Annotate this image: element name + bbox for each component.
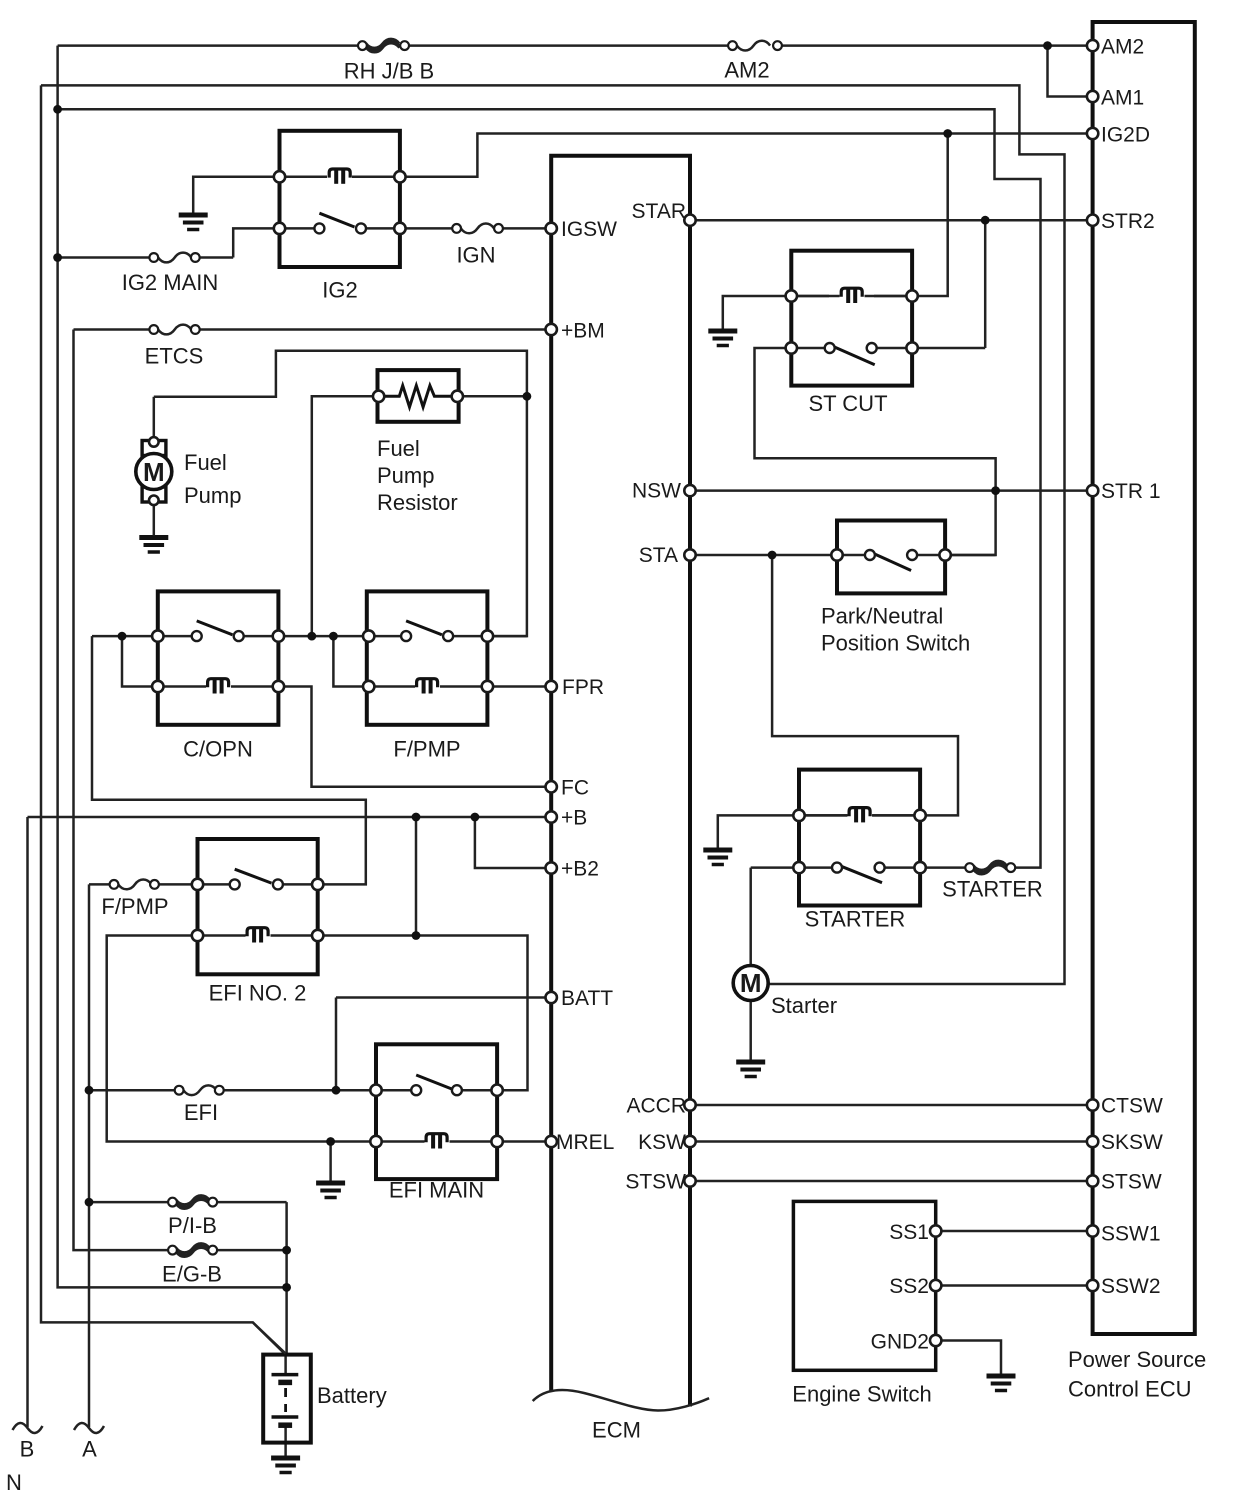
svg-text:M: M bbox=[143, 457, 165, 487]
svg-text:ACCR: ACCR bbox=[626, 1095, 686, 1118]
svg-text:AM1: AM1 bbox=[1101, 87, 1144, 110]
svg-text:Battery: Battery bbox=[317, 1383, 387, 1408]
svg-text:AM2: AM2 bbox=[724, 58, 769, 83]
svg-text:BATT: BATT bbox=[561, 987, 613, 1010]
svg-text:E/G-B: E/G-B bbox=[162, 1262, 222, 1287]
svg-text:CTSW: CTSW bbox=[1101, 1095, 1163, 1118]
svg-text:IG2: IG2 bbox=[322, 278, 357, 303]
svg-text:FPR: FPR bbox=[562, 676, 604, 699]
svg-text:+B2: +B2 bbox=[561, 858, 599, 881]
svg-text:STR 1: STR 1 bbox=[1101, 480, 1161, 503]
svg-text:Starter: Starter bbox=[771, 993, 837, 1018]
svg-text:SSW1: SSW1 bbox=[1101, 1223, 1161, 1246]
svg-text:Pump: Pump bbox=[184, 483, 241, 508]
svg-text:Resistor: Resistor bbox=[377, 490, 458, 515]
svg-text:AM2: AM2 bbox=[1101, 36, 1144, 59]
svg-text:F/PMP: F/PMP bbox=[393, 737, 460, 762]
svg-text:IGSW: IGSW bbox=[561, 218, 617, 241]
svg-text:ST CUT: ST CUT bbox=[808, 391, 887, 416]
svg-text:B: B bbox=[20, 1437, 35, 1462]
svg-text:STSW: STSW bbox=[625, 1171, 686, 1194]
svg-text:IG2D: IG2D bbox=[1101, 124, 1150, 147]
svg-text:M: M bbox=[740, 968, 762, 998]
svg-text:MREL: MREL bbox=[556, 1131, 614, 1154]
svg-text:Engine Switch: Engine Switch bbox=[792, 1382, 931, 1407]
svg-text:F/PMP: F/PMP bbox=[101, 894, 168, 919]
svg-text:STSW: STSW bbox=[1101, 1171, 1162, 1194]
svg-text:SS1: SS1 bbox=[889, 1221, 929, 1244]
svg-text:Park/Neutral: Park/Neutral bbox=[821, 604, 943, 629]
svg-text:GND2: GND2 bbox=[871, 1331, 929, 1354]
svg-text:STARTER: STARTER bbox=[805, 907, 906, 932]
svg-text:C/OPN: C/OPN bbox=[183, 737, 253, 762]
svg-text:Control ECU: Control ECU bbox=[1068, 1377, 1191, 1402]
svg-text:Pump: Pump bbox=[377, 463, 434, 488]
svg-text:SSW2: SSW2 bbox=[1101, 1275, 1161, 1298]
svg-text:FC: FC bbox=[561, 777, 589, 800]
svg-text:STAR: STAR bbox=[632, 200, 686, 223]
svg-text:+BM: +BM bbox=[561, 320, 605, 343]
svg-text:P/I-B: P/I-B bbox=[168, 1213, 217, 1238]
svg-text:Fuel: Fuel bbox=[184, 450, 227, 475]
svg-text:A: A bbox=[82, 1437, 97, 1462]
svg-text:STA: STA bbox=[639, 544, 678, 567]
svg-text:ECM: ECM bbox=[592, 1418, 641, 1443]
svg-text:EFI: EFI bbox=[184, 1100, 218, 1125]
svg-text:KSW: KSW bbox=[638, 1131, 686, 1154]
svg-text:Power Source: Power Source bbox=[1068, 1347, 1206, 1372]
svg-text:ETCS: ETCS bbox=[145, 344, 204, 369]
svg-text:EFI MAIN: EFI MAIN bbox=[389, 1178, 484, 1203]
svg-text:SS2: SS2 bbox=[889, 1275, 929, 1298]
svg-text:IG2 MAIN: IG2 MAIN bbox=[122, 270, 219, 295]
svg-text:NSW: NSW bbox=[632, 480, 681, 503]
svg-text:N: N bbox=[6, 1470, 22, 1495]
svg-text:Position Switch: Position Switch bbox=[821, 631, 970, 656]
svg-text:+B: +B bbox=[561, 807, 587, 830]
svg-text:EFI NO. 2: EFI NO. 2 bbox=[209, 981, 307, 1006]
svg-text:IGN: IGN bbox=[456, 243, 495, 268]
svg-text:STR2: STR2 bbox=[1101, 210, 1155, 233]
svg-text:RH J/B B: RH J/B B bbox=[344, 59, 434, 84]
svg-text:Fuel: Fuel bbox=[377, 436, 420, 461]
svg-text:STARTER: STARTER bbox=[942, 877, 1043, 902]
svg-text:SKSW: SKSW bbox=[1101, 1131, 1163, 1154]
